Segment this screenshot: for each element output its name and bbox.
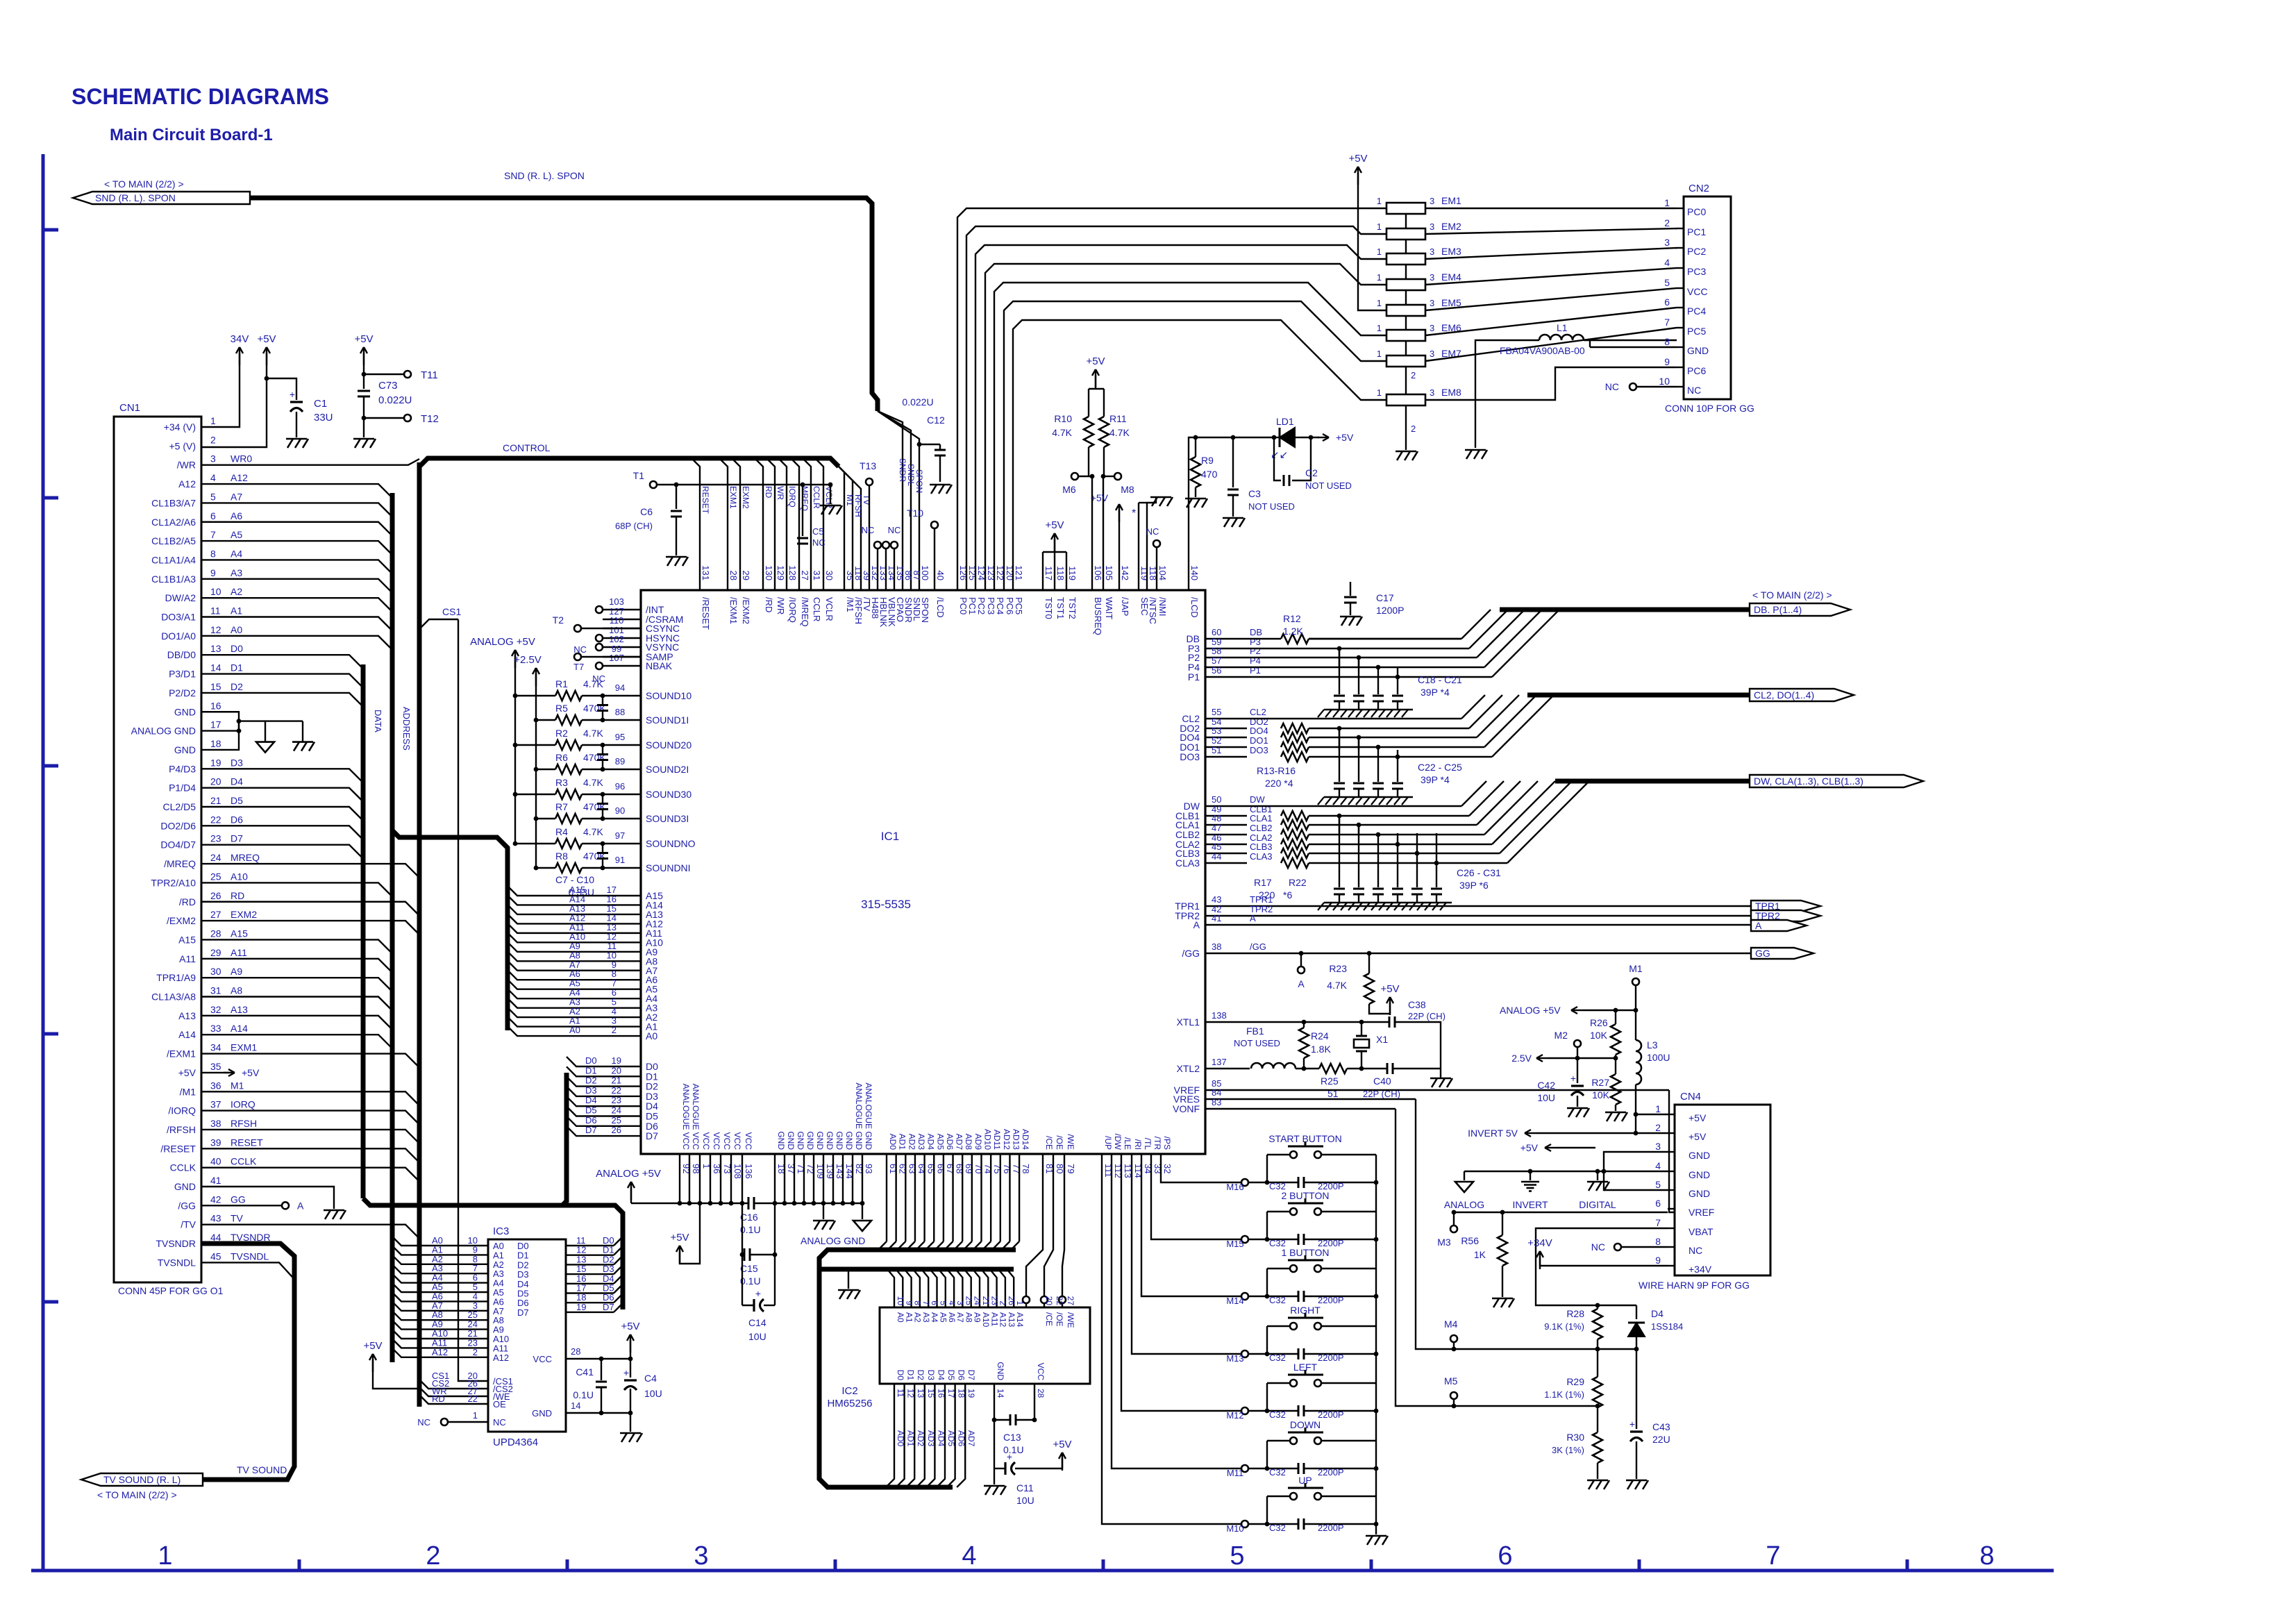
svg-text:27: 27 [1066, 1296, 1075, 1306]
svg-text:2200P: 2200P [1318, 1409, 1344, 1420]
svg-text:16: 16 [936, 1389, 946, 1398]
svg-text:INVERT 5V: INVERT 5V [1468, 1128, 1518, 1139]
wire SNDR SNDL SPON fan to IC1 [878, 411, 924, 590]
svg-text:A0: A0 [896, 1312, 905, 1323]
ground under C6 [666, 557, 688, 566]
svg-text:DW/A2: DW/A2 [165, 592, 196, 603]
svg-text:D0: D0 [231, 643, 243, 654]
svg-text:+: + [1629, 1418, 1635, 1430]
svg-text:T11: T11 [421, 369, 438, 381]
svg-text:21: 21 [210, 795, 221, 806]
svg-text:142: 142 [1120, 565, 1130, 580]
svg-text:GND: GND [825, 1131, 835, 1150]
wire CN1 pin41 GND [201, 1187, 334, 1209]
svg-text:137: 137 [1212, 1057, 1227, 1067]
wire /NMI with NC [1146, 526, 1160, 590]
svg-text:3: 3 [955, 1300, 965, 1305]
svg-text:3: 3 [1430, 196, 1434, 206]
svg-text:D2: D2 [916, 1370, 925, 1381]
svg-text:22: 22 [210, 814, 221, 825]
svg-text:/IORQ: /IORQ [168, 1105, 196, 1116]
svg-text:25: 25 [612, 1115, 621, 1125]
svg-text:19: 19 [210, 757, 221, 768]
svg-text:1: 1 [1377, 246, 1382, 257]
power arrow +5V to EM5 [1348, 153, 1386, 310]
svg-text:+34V: +34V [1527, 1237, 1552, 1249]
svg-text:55: 55 [1212, 707, 1221, 717]
svg-text:39P *6: 39P *6 [1459, 880, 1489, 891]
wire CN1 pin 25 A10 to ADDRESS bus [201, 882, 392, 896]
svg-text:A11: A11 [231, 947, 247, 958]
svg-text:A3: A3 [921, 1312, 931, 1323]
svg-text:+: + [1007, 1451, 1012, 1462]
svg-text:C17: C17 [1376, 592, 1394, 603]
svg-text:1: 1 [1377, 323, 1382, 333]
svg-text:1.8K: 1.8K [1311, 1044, 1331, 1055]
svg-text:+5V: +5V [363, 1340, 382, 1352]
svg-text:GND: GND [796, 1131, 805, 1150]
svg-text:A7: A7 [231, 491, 242, 502]
svg-text:SOUND1I: SOUND1I [646, 714, 689, 726]
capacitor C32 2200P at LEFT [1265, 1405, 1379, 1420]
svg-text:NC: NC [1689, 1245, 1702, 1256]
testpoint M11 [1227, 1465, 1248, 1478]
svg-text:20: 20 [1044, 1296, 1054, 1306]
svg-text:4.7K: 4.7K [1327, 980, 1347, 991]
svg-text:32: 32 [1162, 1164, 1173, 1173]
capacitor C17 1200P [1344, 582, 1404, 616]
svg-text:40: 40 [210, 1156, 221, 1167]
svg-text:C14: C14 [748, 1317, 766, 1328]
svg-text:L1: L1 [1557, 322, 1568, 333]
svg-text:R13-R16: R13-R16 [1257, 765, 1296, 776]
bus CL2 DO(1..4) merge to flag [1247, 695, 1750, 757]
svg-text:48: 48 [1212, 813, 1221, 823]
svg-text:41: 41 [1212, 913, 1221, 923]
wire VRES to battery divider [1416, 1099, 1636, 1351]
svg-text:31: 31 [210, 985, 221, 996]
wire CN1 pin 9 A3 to ADDRESS bus [201, 579, 392, 593]
svg-text:CN2: CN2 [1689, 183, 1709, 194]
svg-text:TPR1: TPR1 [1250, 894, 1273, 905]
testpoint M12 [1226, 1407, 1248, 1421]
svg-text:+: + [290, 389, 295, 400]
svg-text:CL1B2/A5: CL1B2/A5 [151, 535, 196, 546]
svg-text:A: A [1298, 978, 1305, 989]
svg-text:/WR: /WR [776, 597, 786, 614]
svg-text:AD2: AD2 [916, 1430, 925, 1447]
svg-text:4.7K: 4.7K [583, 728, 603, 739]
resistors R10 R11 4.7K with M6 M8 [1052, 355, 1134, 590]
resistor R12 1.2K on DB line [1247, 613, 1461, 644]
ground chassis CN1 pin17 [292, 742, 315, 751]
svg-text:/RFSH: /RFSH [167, 1124, 196, 1135]
svg-text:26: 26 [612, 1125, 621, 1135]
capacitors C26-C31 39P bank [1318, 814, 1501, 910]
NC terminals above HBLNK VBLNK CPAO [862, 525, 901, 590]
svg-text:39: 39 [210, 1137, 221, 1148]
svg-text:21: 21 [612, 1075, 621, 1086]
svg-text:< TO MAIN (2/2) >: < TO MAIN (2/2) > [104, 178, 184, 190]
svg-text:96: 96 [615, 781, 625, 792]
wire CN1 pin 23 to DATA bus [201, 845, 363, 859]
svg-text:M13: M13 [1226, 1353, 1243, 1364]
svg-text:NC: NC [417, 1417, 430, 1428]
svg-text:27: 27 [210, 909, 221, 920]
svg-text:26: 26 [1007, 1296, 1016, 1306]
LED LD1 [1271, 416, 1301, 461]
ground under EM chain [1396, 451, 1418, 460]
svg-text:A4: A4 [231, 548, 242, 559]
svg-text:10: 10 [210, 586, 221, 597]
svg-text:88: 88 [615, 707, 625, 717]
svg-text:TVSNDL: TVSNDL [158, 1257, 196, 1268]
svg-text:D4: D4 [231, 776, 243, 787]
svg-text:29: 29 [210, 947, 221, 958]
svg-text:R30: R30 [1566, 1432, 1584, 1443]
svg-text:M1: M1 [1629, 963, 1643, 974]
svg-text:11: 11 [896, 1389, 905, 1398]
svg-text:108: 108 [732, 1164, 743, 1179]
svg-text:M12: M12 [1226, 1410, 1243, 1421]
svg-text:C41: C41 [576, 1366, 594, 1378]
capacitor C32 2200P at 2 BUTTON [1265, 1234, 1379, 1248]
svg-text:17: 17 [210, 719, 221, 730]
resistor R26 10K [1590, 1008, 1620, 1058]
svg-text:1: 1 [1664, 197, 1670, 208]
svg-text:4.7K: 4.7K [583, 678, 603, 689]
svg-text:AD3: AD3 [926, 1430, 936, 1447]
svg-text:3: 3 [1430, 221, 1434, 232]
svg-text:M11: M11 [1227, 1468, 1243, 1478]
svg-text:TST2: TST2 [1067, 597, 1078, 619]
capacitor C38 22P CH [1389, 999, 1446, 1069]
svg-text:37: 37 [210, 1099, 221, 1110]
diode D4 1SS184 [1628, 1305, 1683, 1351]
capacitor C14 10U [742, 1255, 775, 1342]
svg-text:C2: C2 [1305, 467, 1318, 478]
svg-text:D2: D2 [585, 1075, 597, 1086]
svg-text:1: 1 [473, 1410, 478, 1421]
flag DW CLA(1..3) CLB(1..3) to main 2/2 [1750, 775, 1923, 787]
svg-text:RESET: RESET [701, 486, 710, 514]
svg-text:39P *4: 39P *4 [1421, 774, 1450, 785]
svg-text:C43: C43 [1652, 1421, 1670, 1432]
svg-text:+5V: +5V [1086, 355, 1105, 367]
capacitor C73 0.022U [358, 380, 412, 437]
svg-text:CL2/D5: CL2/D5 [163, 801, 196, 812]
testpoint T12 [362, 413, 439, 425]
svg-text:CCLR: CCLR [812, 486, 821, 509]
svg-text:GG: GG [1755, 948, 1770, 959]
svg-text:A7: A7 [955, 1312, 965, 1323]
flag DB. P(1..4) to main 2/2 [1750, 589, 1850, 616]
svg-text:2: 2 [612, 1025, 617, 1035]
power arrow +5V from CN1 pin2 [201, 333, 276, 447]
power arrow +5V after LD1 [1301, 432, 1354, 443]
ground under C17 [1340, 617, 1362, 626]
svg-text:T13: T13 [860, 460, 876, 471]
svg-text:2: 2 [1664, 217, 1670, 228]
capacitor C40 22P CH and ground [1363, 1063, 1441, 1099]
svg-text:A0: A0 [646, 1030, 657, 1041]
switch RIGHT [1267, 1305, 1376, 1383]
svg-text:A12: A12 [432, 1347, 448, 1357]
svg-text:CONN 10P FOR GG: CONN 10P FOR GG [1665, 403, 1754, 414]
svg-text:D6: D6 [585, 1115, 597, 1125]
svg-text:FB1: FB1 [1246, 1026, 1264, 1037]
ground under C43 [1626, 1480, 1648, 1489]
IC1 pin XTL1 wire [1177, 1010, 1389, 1028]
testpoint M16 [1226, 1179, 1248, 1192]
svg-text:15: 15 [210, 681, 221, 692]
svg-text:50: 50 [1212, 794, 1221, 805]
svg-text:GND: GND [844, 1131, 854, 1150]
capacitor C32 2200P at DOWN [1265, 1463, 1379, 1477]
svg-text:TVSNDL: TVSNDL [231, 1250, 269, 1262]
svg-text:C12: C12 [927, 415, 945, 426]
svg-text:EXM1: EXM1 [728, 486, 738, 509]
svg-text:C1: C1 [314, 398, 327, 410]
svg-text:A12: A12 [231, 472, 248, 483]
svg-text:CCLR: CCLR [812, 597, 822, 621]
svg-text:36: 36 [210, 1080, 221, 1091]
svg-text:107: 107 [609, 653, 624, 663]
svg-text:20: 20 [210, 776, 221, 787]
svg-text:103: 103 [609, 596, 624, 607]
svg-text:A: A [297, 1200, 304, 1211]
svg-text:SNDR: SNDR [898, 458, 907, 482]
svg-text:M2: M2 [1555, 1030, 1568, 1041]
svg-text:A1: A1 [904, 1312, 914, 1323]
svg-text:SPON: SPON [920, 597, 930, 623]
svg-text:24: 24 [612, 1105, 621, 1116]
svg-text:3K (1%): 3K (1%) [1552, 1445, 1584, 1455]
svg-text:/EXM2: /EXM2 [167, 915, 196, 926]
svg-text:A12: A12 [493, 1353, 509, 1363]
svg-text:RD: RD [764, 486, 773, 499]
svg-text:C18 - C21: C18 - C21 [1418, 674, 1462, 685]
svg-text:PC0: PC0 [958, 597, 969, 614]
svg-text:+34 (V): +34 (V) [164, 421, 196, 433]
resistor R4 4.7K on SOUNDNO [513, 826, 696, 849]
svg-text:GND: GND [786, 1131, 796, 1150]
svg-text:D4: D4 [1651, 1308, 1664, 1319]
svg-text:C73: C73 [378, 380, 398, 392]
wires EM outputs to CN2 pins [1425, 208, 1677, 400]
svg-text:3: 3 [1430, 298, 1434, 308]
svg-text:ANALOGUE VCC: ANALOGUE VCC [681, 1084, 691, 1150]
svg-text:D3: D3 [231, 757, 243, 768]
svg-text:110: 110 [610, 615, 624, 626]
svg-text:P2: P2 [1250, 646, 1261, 656]
capacitor C16 0.1U [740, 1197, 761, 1235]
switch LEFT [1267, 1362, 1376, 1441]
resistor R25 51 [1319, 1064, 1387, 1099]
svg-text:13: 13 [916, 1389, 925, 1398]
wires ADDRESS bus fan to IC3 A0-A12 [392, 1235, 488, 1357]
IC1 right pins TPR1 TPR2 A and wires to flags [1175, 894, 1751, 930]
page frame left ruler [43, 154, 58, 1571]
svg-text:C32: C32 [1269, 1523, 1286, 1533]
svg-text:TVSNDR: TVSNDR [156, 1238, 196, 1249]
svg-text:DO3: DO3 [1180, 751, 1200, 762]
svg-text:6: 6 [930, 1300, 939, 1305]
svg-text:PC1: PC1 [967, 597, 978, 614]
wires CONTROL bus fan to IC3 CS2 WR RD [419, 1371, 488, 1404]
svg-text:VREF: VREF [1689, 1207, 1714, 1218]
svg-text:A9: A9 [973, 1312, 982, 1323]
resistor R2 4.7K on SOUND20 [513, 728, 692, 751]
svg-text:GND: GND [805, 1131, 815, 1150]
svg-text:/GG: /GG [1182, 948, 1200, 959]
svg-text:SNDL: SNDL [906, 464, 916, 486]
svg-text:C32: C32 [1269, 1467, 1286, 1477]
svg-text:SOUND10: SOUND10 [646, 690, 692, 701]
svg-text:DB. P(1..4): DB. P(1..4) [1754, 604, 1802, 615]
svg-text:28: 28 [210, 928, 221, 939]
svg-text:19: 19 [576, 1302, 586, 1312]
svg-text:26: 26 [210, 890, 221, 901]
svg-text:1: 1 [1655, 1103, 1661, 1114]
ground under C1 [286, 439, 308, 448]
resistors R17-R22 220 on CLA CLB lines [1254, 811, 1309, 901]
svg-text:+: + [623, 1367, 629, 1378]
svg-text:106: 106 [1093, 565, 1103, 580]
svg-text:GND: GND [996, 1362, 1005, 1380]
svg-text:A14: A14 [178, 1029, 196, 1040]
resistor R8 470K on SOUNDNI [534, 851, 691, 873]
svg-text:VONF: VONF [1173, 1103, 1200, 1114]
wire /LCD pin140 to LED block [1189, 437, 1274, 590]
svg-text:A2: A2 [913, 1312, 923, 1323]
svg-text:23: 23 [612, 1095, 621, 1105]
svg-text:M5: M5 [1444, 1375, 1458, 1387]
testpoint M13 [1226, 1350, 1248, 1364]
svg-text:4: 4 [1664, 257, 1670, 268]
svg-text:C40: C40 [1373, 1075, 1391, 1087]
resistor R28 9.1K 1% [1544, 1305, 1602, 1349]
capacitor C32 2200P at 1 BUTTON [1265, 1291, 1379, 1305]
svg-text:44: 44 [1212, 851, 1221, 862]
capacitor C13 0.1U on IC2 power [992, 1384, 1037, 1455]
svg-text:3: 3 [1430, 246, 1434, 257]
svg-text:OE: OE [493, 1399, 506, 1409]
svg-text:/WE: /WE [1066, 1312, 1075, 1328]
switch START BUTTON [1267, 1133, 1376, 1212]
svg-text:100U: 100U [1647, 1052, 1670, 1063]
wires IC1 VCC pins to ANALOG +5V rail [631, 1154, 748, 1205]
wires IC1 CE OE WE to IC2 [1023, 1154, 1066, 1307]
svg-text:GND: GND [776, 1131, 786, 1150]
ground under L1 [1465, 450, 1487, 459]
flag TPR2 [1751, 910, 1820, 921]
svg-text:GND: GND [174, 744, 196, 755]
capacitor C32 2200P at RIGHT [1265, 1348, 1379, 1363]
svg-text:1: 1 [158, 1541, 172, 1571]
svg-text:117: 117 [1044, 566, 1054, 580]
svg-text:91: 91 [615, 855, 625, 865]
capacitor C1 33U [267, 378, 333, 437]
svg-text:5: 5 [1230, 1541, 1244, 1571]
node A tap on GG line [1298, 951, 1305, 989]
testpoint T13 [860, 460, 876, 590]
svg-text:R29: R29 [1566, 1376, 1584, 1387]
svg-text:CL2: CL2 [1250, 707, 1266, 717]
svg-text:0.1U: 0.1U [573, 1389, 594, 1400]
bus fan to IC2 bottom pins [886, 1384, 965, 1487]
svg-text:7: 7 [921, 1300, 931, 1305]
svg-text:PC6: PC6 [1687, 365, 1706, 376]
svg-text:AD8: AD8 [964, 1134, 973, 1150]
resistor R1 4.7K on SOUND10 [513, 678, 692, 701]
wire CN1 pin 5 A7 to ADDRESS bus [201, 503, 392, 517]
svg-text:2: 2 [210, 434, 216, 445]
svg-text:NOT USED: NOT USED [1305, 480, 1352, 491]
svg-text:A5: A5 [231, 529, 242, 540]
IC1 right pins DB P3 P2 P4 P1 [1187, 627, 1263, 683]
svg-text:43: 43 [210, 1213, 221, 1224]
wire CN1 pin 14 to DATA bus [201, 674, 363, 688]
svg-text:19: 19 [612, 1055, 621, 1066]
flag TV SOUND (R.L) to main 2/2 [81, 1464, 287, 1500]
svg-text:A13: A13 [231, 1004, 248, 1015]
svg-text:R10: R10 [1054, 413, 1072, 424]
bus CONTROL horizontal [419, 442, 839, 467]
svg-text:/OE: /OE [1055, 1312, 1064, 1327]
ground under button rail [1366, 1524, 1388, 1545]
svg-text:TPR1/A9: TPR1/A9 [156, 972, 196, 983]
NC terminal IC3 pin1 [417, 1410, 488, 1428]
svg-text:/LCD: /LCD [1189, 597, 1200, 618]
svg-text:P1/D4: P1/D4 [169, 782, 196, 794]
switch 1 BUTTON [1267, 1247, 1376, 1326]
svg-text:A8: A8 [231, 985, 242, 996]
svg-text:A1: A1 [231, 605, 242, 617]
svg-text:4.7K: 4.7K [583, 826, 603, 837]
svg-text:EM1: EM1 [1441, 195, 1461, 206]
svg-text:*6: *6 [1283, 889, 1292, 901]
wire CN1 pin 40 to CONTROL bus [201, 1168, 419, 1182]
IC1 pins VREF VRES VONF wires [1173, 1078, 1669, 1114]
svg-text:29: 29 [741, 571, 751, 580]
svg-text:4: 4 [947, 1300, 957, 1305]
bus CONTROL vertical [417, 462, 422, 1407]
svg-text:95: 95 [615, 732, 625, 742]
svg-text:10K: 10K [1590, 1030, 1608, 1041]
svg-text:C32: C32 [1269, 1353, 1286, 1363]
svg-text:VCC: VCC [701, 1132, 711, 1150]
svg-text:SOUND2I: SOUND2I [646, 764, 689, 775]
title SCHEMATIC DIAGRAMS [72, 84, 329, 109]
svg-text:UPD4364: UPD4364 [493, 1437, 538, 1448]
svg-text:M3: M3 [1437, 1237, 1451, 1248]
svg-text:ANALOGUE GND: ANALOGUE GND [864, 1082, 873, 1150]
svg-text:TV SOUND (R. L): TV SOUND (R. L) [103, 1474, 181, 1485]
resistor R24 1.8K [1299, 1020, 1331, 1071]
svg-text:C6: C6 [640, 506, 653, 517]
wires CN4 +5V pins from L3 [1634, 1112, 1668, 1133]
svg-text:A0: A0 [231, 624, 242, 635]
svg-text:A14: A14 [1015, 1312, 1025, 1328]
svg-text:SOUND30: SOUND30 [646, 789, 692, 800]
svg-text:22: 22 [468, 1393, 478, 1404]
svg-text:DW, CLA(1..3), CLB(1..3): DW, CLA(1..3), CLB(1..3) [1754, 776, 1863, 787]
svg-text:AD5: AD5 [946, 1430, 956, 1447]
ground chassis R9 [1185, 499, 1207, 508]
svg-text:/JAP: /JAP [1120, 597, 1130, 616]
ground under C12 [930, 485, 952, 494]
